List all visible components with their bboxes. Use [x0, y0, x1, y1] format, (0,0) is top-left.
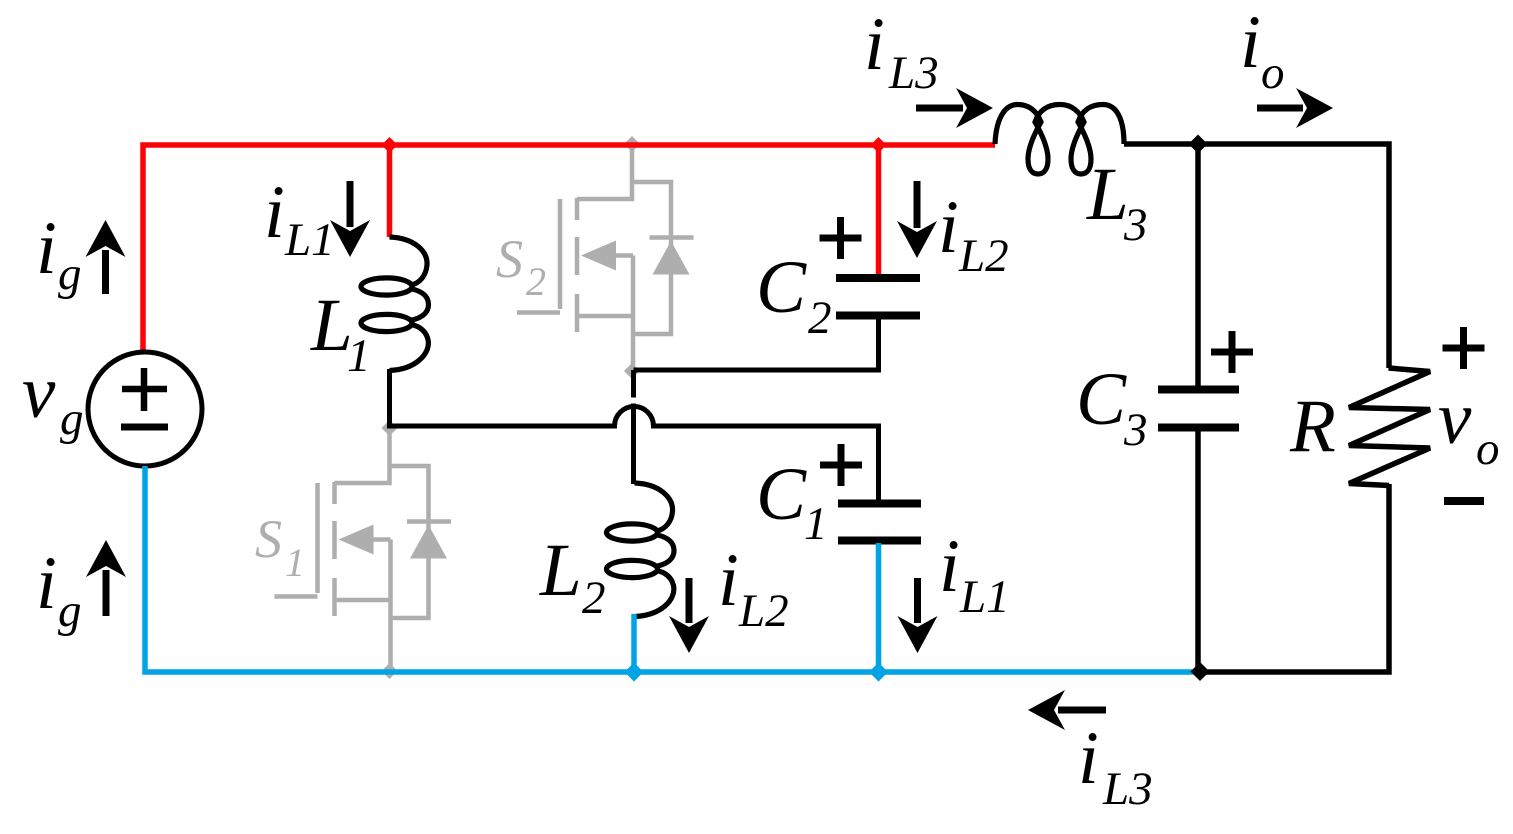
svg-text:C: C — [756, 453, 807, 536]
node gray junction S1 drain — [382, 420, 398, 436]
wire top black L3 to R corner — [1124, 144, 1389, 368]
transistor S1 body arrow head — [339, 525, 374, 555]
polarity plus C2 — [820, 217, 862, 259]
wire red above C2 — [876, 145, 882, 276]
polarity plus C1 — [820, 444, 862, 486]
svg-text:o: o — [1261, 47, 1285, 99]
current arrow iL3 bottom — [1058, 707, 1106, 714]
svg-text:v: v — [22, 351, 56, 434]
svg-text:C: C — [756, 246, 807, 329]
polarity minus vo — [1444, 497, 1484, 505]
svg-text:3: 3 — [1123, 404, 1148, 456]
wire red stub above L1 — [387, 145, 393, 237]
svg-text:L3: L3 — [888, 47, 939, 99]
svg-text:1: 1 — [347, 330, 371, 382]
svg-text:2: 2 — [808, 292, 832, 344]
transistor S2 body diode triangle — [653, 241, 690, 275]
wire top red bus — [143, 145, 995, 352]
node red junction C2 top — [871, 137, 887, 153]
svg-text:1: 1 — [285, 540, 305, 585]
current arrow iL1 top — [347, 181, 354, 227]
svg-text:i: i — [864, 3, 885, 86]
node black junction bottom — [1191, 662, 1210, 681]
inductor L1 — [361, 237, 429, 371]
current arrow ig top — [102, 250, 109, 294]
node black junction top C3 — [1189, 135, 1208, 154]
current arrow ig bottom — [103, 570, 110, 616]
polarity plus vo — [1443, 327, 1485, 369]
resistor R sawtooth — [1349, 368, 1430, 486]
capacitor C1 — [838, 504, 921, 541]
svg-text:v: v — [1438, 377, 1472, 460]
wire C3 top — [1195, 144, 1201, 387]
transistor S1 — [275, 428, 452, 670]
wire C2 bottom to S2 source — [634, 317, 879, 370]
node blue junction below L2 — [625, 663, 644, 682]
transistor S2 body arrow head — [581, 241, 616, 271]
wire blue below L2 — [631, 614, 637, 672]
source minus sign — [121, 424, 168, 431]
svg-text:o: o — [1476, 423, 1500, 475]
svg-text:S: S — [255, 509, 282, 569]
transistor S2 — [517, 144, 694, 372]
svg-text:i: i — [36, 542, 57, 625]
capacitor C2 — [836, 278, 920, 316]
wire vertical S2 source to L2 — [631, 370, 636, 484]
svg-text:i: i — [718, 539, 739, 622]
current arrow io — [1257, 105, 1303, 112]
svg-text:R: R — [1289, 385, 1336, 468]
current arrow iL1 bottom — [914, 578, 921, 623]
source plus sign — [122, 368, 167, 411]
svg-text:L3: L3 — [1102, 763, 1153, 815]
transistor S1 body diode triangle — [410, 525, 447, 559]
inductor L3 — [995, 105, 1124, 175]
wire black below L1 and middle horizontal to C1 with hop — [390, 369, 879, 502]
svg-text:g: g — [58, 585, 82, 637]
node gray junction S1 source — [382, 663, 398, 679]
svg-text:S: S — [496, 229, 523, 289]
current arrow iL3 top — [916, 105, 963, 112]
svg-text:i: i — [939, 525, 960, 608]
wire blue below source and bottom bus — [145, 466, 1201, 672]
svg-text:i: i — [264, 171, 285, 254]
wire blue below C1 — [876, 543, 882, 672]
svg-text:g: g — [60, 393, 84, 445]
wire black bottom right bus — [1201, 484, 1389, 672]
inductor L2 — [607, 483, 675, 617]
voltage source Vg circle — [88, 352, 202, 466]
svg-text:L1: L1 — [959, 571, 1010, 623]
svg-text:1: 1 — [804, 498, 828, 550]
node blue junction below C1 — [869, 663, 888, 682]
polarity plus C3 — [1211, 331, 1253, 373]
svg-text:2: 2 — [582, 572, 606, 624]
svg-text:L2: L2 — [738, 585, 789, 637]
node gray junction S2 source — [624, 363, 640, 379]
svg-text:L2: L2 — [958, 230, 1009, 282]
svg-text:3: 3 — [1123, 199, 1148, 251]
node red junction L1 top — [382, 137, 398, 153]
svg-text:C: C — [1076, 358, 1127, 441]
svg-text:2: 2 — [526, 259, 546, 304]
svg-text:L: L — [1086, 153, 1129, 236]
svg-text:i: i — [1240, 1, 1261, 84]
node gray junction S2 drain — [624, 136, 640, 152]
current arrow iL2 bottom — [686, 578, 693, 623]
svg-text:i: i — [938, 186, 959, 269]
svg-text:g: g — [58, 248, 82, 300]
capacitor C3 — [1158, 390, 1239, 428]
svg-text:i: i — [36, 207, 57, 290]
svg-text:L: L — [539, 529, 582, 612]
current arrow iL2 top — [914, 181, 921, 228]
svg-text:i: i — [1078, 717, 1099, 800]
wire C3 bottom — [1195, 430, 1201, 672]
svg-text:L1: L1 — [284, 214, 335, 266]
